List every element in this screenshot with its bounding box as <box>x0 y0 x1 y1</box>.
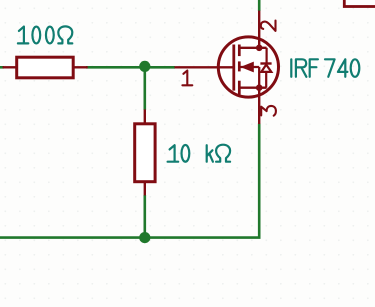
mosfet Q1 body diode anode lead <box>265 72 267 88</box>
wire R2 to bottom rail <box>144 195 147 238</box>
resistor R1 pin left <box>3 66 16 68</box>
bottom rail wire with corner up to Q1 source <box>0 124 259 238</box>
mosfet Q1 body stub with arrow line <box>240 66 259 68</box>
partial component top-right (resistor body corner) <box>344 0 375 7</box>
resistor R2 body <box>135 124 155 182</box>
mosfet Q1 body diode triangle <box>261 65 271 72</box>
wire top to Q1 drain <box>258 0 261 11</box>
mosfet Q1 body-source link <box>258 67 260 88</box>
mosfet Q1 gate bar <box>232 45 235 91</box>
wire left of R1 <box>0 66 4 69</box>
pin number 3 <box>261 106 276 116</box>
mosfet Q1 channel dash bottom <box>238 81 241 95</box>
mosfet Q1 drain stub <box>239 47 266 49</box>
mosfet Q1 pin 2 line (drain) <box>258 11 260 48</box>
label 10 kΩ <box>168 145 231 162</box>
junction node B <box>139 232 150 243</box>
mosfet Q1 source stub <box>239 87 266 89</box>
mosfet Q1 channel dash middle <box>238 61 241 71</box>
resistor R1 body <box>17 57 73 78</box>
label 100Ω <box>18 26 72 43</box>
resistor R1 pin right <box>74 66 88 68</box>
pin number 1 <box>182 71 192 86</box>
mosfet Q1 body circle <box>218 37 278 97</box>
resistor R2 pin bottom <box>144 182 146 196</box>
resistor R2 pin top <box>144 109 146 124</box>
label IRF740 <box>291 59 359 77</box>
pin number 2 <box>261 21 276 31</box>
mosfet Q1 channel dash top <box>238 45 241 57</box>
mosfet Q1 pin 1 line (gate) <box>175 66 234 68</box>
mosfet Q1 body diode cathode lead <box>266 48 268 64</box>
junction node A <box>139 61 150 72</box>
wire R1 to junction <box>86 66 175 69</box>
mosfet Q1 pin 3 line (source) <box>258 88 260 124</box>
mosfet Q1 drain dot <box>256 45 263 52</box>
mosfet Q1 source dot <box>256 84 263 91</box>
mosfet Q1 arrow <box>240 62 254 73</box>
wire junction down to R2 <box>144 66 147 110</box>
mosfet Q1 body diode cathode bar <box>260 62 271 64</box>
